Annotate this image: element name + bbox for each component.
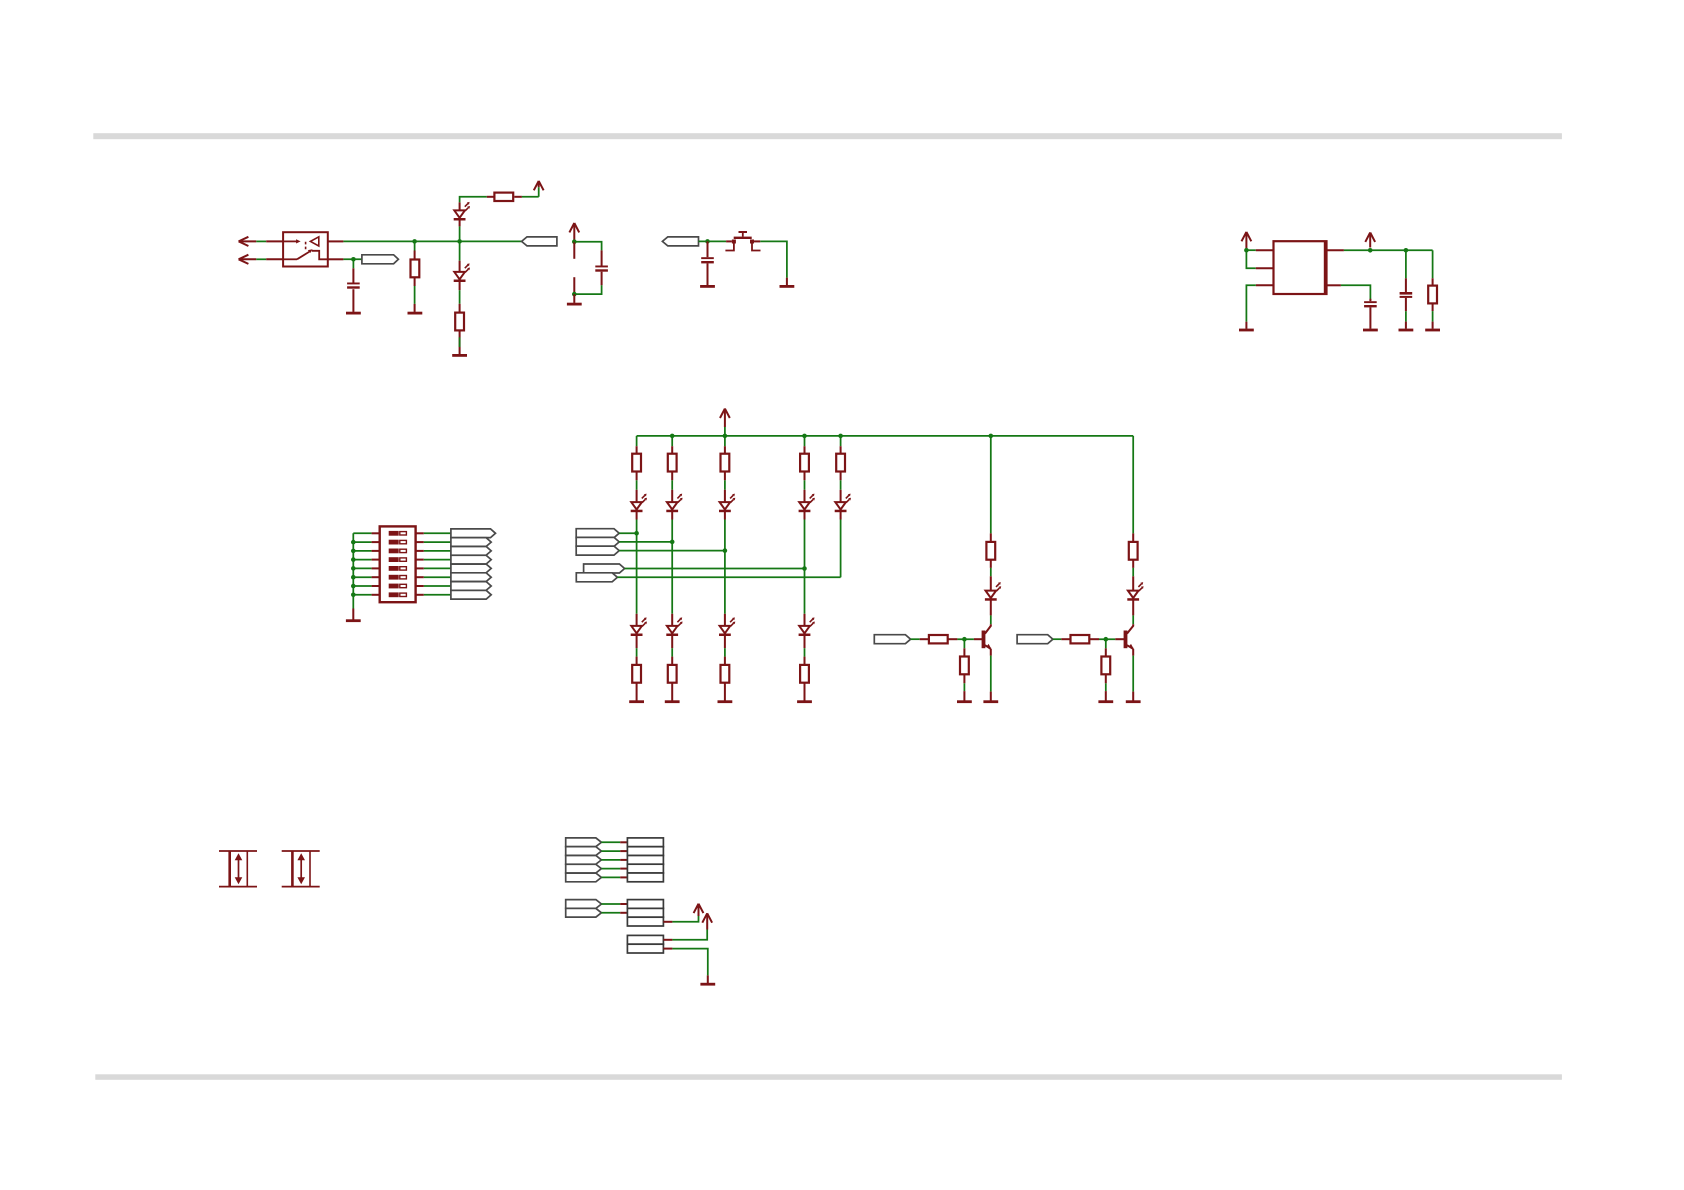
supply VCC <box>720 409 730 418</box>
connector X2 pad 1 <box>627 900 663 909</box>
wire <box>256 240 266 242</box>
pin R11-1 <box>671 657 673 665</box>
pin R12-2 <box>724 683 726 701</box>
ground <box>1239 329 1254 332</box>
dip switch SW1 element 6 <box>389 575 399 580</box>
pin <box>963 691 965 700</box>
connector X3 pad 2 <box>627 944 663 953</box>
pin X3-2 <box>663 948 672 950</box>
pin SW1-6R <box>416 576 424 578</box>
pin D8-K <box>636 636 638 649</box>
pin R3-2 <box>1432 303 1434 311</box>
pin X1-4 <box>620 868 627 870</box>
net flag row1 end <box>522 237 557 246</box>
pin <box>707 975 709 983</box>
junction <box>723 548 728 553</box>
pin <box>990 692 992 701</box>
supply VCC <box>694 904 704 913</box>
LED D11 <box>799 626 810 633</box>
wire <box>353 550 371 552</box>
connector X3 pad 1 <box>627 935 663 944</box>
net flag SW3 <box>451 547 491 556</box>
pin D7-K <box>840 512 842 520</box>
dip switch SW1 element 5 <box>389 566 399 571</box>
pin R20-2 <box>1105 674 1107 683</box>
wire <box>724 648 726 656</box>
wire <box>672 916 698 922</box>
wire <box>1405 250 1407 278</box>
pin R2-1 <box>487 196 494 198</box>
net flag SW5 <box>451 564 491 573</box>
LED D10 <box>720 626 731 633</box>
net flag ROW5 <box>576 573 617 582</box>
pin D16-A <box>1132 576 1134 590</box>
resistor R1 <box>411 260 420 278</box>
pin D15-K <box>990 600 992 615</box>
pin R7-2 <box>724 472 726 481</box>
pin C4-1 <box>1369 299 1371 301</box>
wire <box>1246 285 1255 321</box>
wire <box>636 520 638 534</box>
junction <box>705 239 710 244</box>
resistor R9 <box>836 454 845 472</box>
pin SW1-7L <box>372 585 380 587</box>
wire <box>1132 568 1134 576</box>
capacitor C4 <box>1364 301 1377 303</box>
wire <box>636 480 638 490</box>
junction <box>572 239 577 244</box>
wire <box>617 576 840 578</box>
wire <box>804 436 806 446</box>
wire <box>414 241 416 250</box>
resistor R12 <box>721 665 730 683</box>
ground <box>629 700 644 703</box>
net flag P4 <box>566 864 602 873</box>
pin D7-A <box>840 490 842 502</box>
wire <box>424 550 451 552</box>
junction <box>351 549 356 554</box>
pin SW1-5L <box>372 567 380 569</box>
pin C5-1 <box>1405 278 1407 292</box>
junction <box>802 434 807 439</box>
pin D3-K <box>636 512 638 520</box>
wire <box>424 541 451 543</box>
resistor R15 <box>986 542 995 560</box>
pin R20-1 <box>1105 648 1107 656</box>
junction <box>989 434 994 439</box>
pin SW1-3L <box>372 550 380 552</box>
net flag Q1 <box>566 900 602 909</box>
wire <box>424 576 451 578</box>
pin SW1-1L <box>372 532 380 534</box>
pin C3-1 <box>707 241 709 257</box>
pin SW1-5R <box>416 567 424 569</box>
wire <box>636 436 638 446</box>
wire <box>840 436 842 446</box>
ground <box>1399 329 1414 332</box>
pin <box>573 294 575 303</box>
pin R9-2 <box>840 472 842 481</box>
pin X1-5 <box>620 876 627 878</box>
wire <box>724 551 726 614</box>
mount symbol H2 <box>282 850 320 852</box>
pin R12-1 <box>724 657 726 665</box>
wire <box>619 541 672 543</box>
supply VCC <box>534 181 544 190</box>
net flag P3 <box>566 856 602 865</box>
wire net row1 <box>343 240 521 242</box>
pin R18-2 <box>1090 638 1099 640</box>
pin D8-A <box>636 614 638 626</box>
pin S1-2 <box>754 240 760 242</box>
pin D9-K <box>671 636 673 649</box>
wire <box>1099 638 1115 640</box>
ground <box>1363 329 1378 332</box>
wire <box>538 187 540 197</box>
transistor Q2 <box>1124 631 1128 649</box>
wire <box>671 436 673 446</box>
pin R8-1 <box>804 446 806 454</box>
pin SW1-8L <box>372 594 380 596</box>
resistor R5 <box>632 454 641 472</box>
supply VCC <box>1242 232 1252 241</box>
wire <box>957 638 974 640</box>
junction <box>1104 637 1109 642</box>
resistor R7 <box>721 454 730 472</box>
dip switch SW1 element 7 <box>389 584 399 589</box>
net flag Q2 <box>566 908 602 917</box>
pin R5-2 <box>636 472 638 481</box>
pin R1-1 <box>414 251 416 260</box>
wire <box>724 427 726 436</box>
wire <box>601 868 620 870</box>
wire <box>459 226 461 241</box>
pin R10-2 <box>636 683 638 701</box>
pin X2-3 <box>663 921 672 923</box>
pin <box>414 304 416 312</box>
pin D2-K <box>459 282 461 291</box>
wire <box>574 285 601 294</box>
switch S1 <box>732 240 736 244</box>
pin SW1-8R <box>416 594 424 596</box>
pin R19-1 <box>963 648 965 656</box>
pin IC1-EN <box>1256 267 1274 269</box>
pin R17-2 <box>948 638 957 640</box>
pin J1-2 <box>266 258 283 260</box>
pin <box>1432 322 1434 329</box>
ground <box>700 285 715 288</box>
capacitor C5 <box>1400 292 1413 295</box>
pin X3-1 <box>663 939 672 941</box>
wire <box>424 594 451 596</box>
resistor R8 <box>800 454 809 472</box>
wire <box>1405 311 1407 321</box>
pin D15-A <box>990 576 992 590</box>
pin R19-2 <box>963 674 965 683</box>
pin R6-1 <box>671 446 673 454</box>
LED D8 <box>631 626 642 633</box>
dip switch SW1 element 4 <box>389 557 399 562</box>
pin J1-4 <box>328 258 344 260</box>
junction <box>351 566 356 571</box>
pin D11-A <box>804 614 806 626</box>
wire <box>1341 285 1371 300</box>
resistor R4 <box>455 313 464 331</box>
pin SW1-7R <box>416 585 424 587</box>
ground <box>567 303 582 306</box>
wire <box>724 436 726 446</box>
transistor Q1 <box>982 631 986 649</box>
junction <box>351 557 356 562</box>
ground <box>346 619 361 622</box>
connector X1 pad 2 <box>627 847 663 856</box>
pin R18-1 <box>1061 638 1070 640</box>
pin R3-1 <box>1432 278 1434 285</box>
connector X1 pad 5 <box>627 873 663 882</box>
wire <box>1432 250 1434 278</box>
wire VCC bus <box>637 435 1134 437</box>
resistor R17 <box>929 635 948 643</box>
net flag CTRL2 <box>1017 635 1053 644</box>
pin R13-1 <box>804 657 806 665</box>
ground <box>346 312 361 315</box>
pin J1-1 <box>266 240 283 242</box>
pin R5-1 <box>636 446 638 454</box>
mount symbol H1 <box>219 850 257 852</box>
pin SW1-2R <box>416 541 424 543</box>
junction <box>962 637 967 642</box>
junction <box>351 257 356 262</box>
wire <box>625 568 805 570</box>
wire <box>1132 615 1134 624</box>
resistor R11 <box>668 665 677 683</box>
pin R17-1 <box>920 638 929 640</box>
net flag SW7 <box>451 582 491 591</box>
pin J1-3 <box>328 240 344 242</box>
pin <box>1245 322 1247 329</box>
wire <box>804 569 806 614</box>
LED D9 <box>667 626 678 633</box>
pin C5-2 <box>1405 298 1407 311</box>
junction <box>351 593 356 598</box>
pin R4-2 <box>459 330 461 347</box>
wire <box>671 542 673 614</box>
ground <box>452 354 467 357</box>
LED D1 <box>454 210 465 217</box>
pin D1-A <box>459 202 461 210</box>
wire <box>990 436 992 534</box>
pin R16-1 <box>1132 533 1134 542</box>
wire <box>1132 436 1134 534</box>
wire <box>671 520 673 542</box>
net flag ROW4 <box>584 564 625 573</box>
junction <box>723 434 728 439</box>
ground <box>957 700 972 703</box>
wire <box>353 541 371 543</box>
pin R11-2 <box>671 683 673 701</box>
wire <box>353 594 371 596</box>
battery BT1 pin <box>573 242 575 259</box>
net flag P1 <box>566 838 602 847</box>
pin D5-K <box>724 512 726 520</box>
pin D3-A <box>636 490 638 502</box>
capacitor C2 <box>595 266 608 268</box>
net flag SW4 <box>451 555 491 564</box>
pin R13-2 <box>804 683 806 701</box>
net flag BTN <box>662 237 698 246</box>
frame bottom bar <box>95 1074 1562 1080</box>
connector J1 (jack with switch) <box>283 232 328 266</box>
resistor R10 <box>632 665 641 683</box>
pin D6-A <box>804 490 806 502</box>
pin IC1-BYP <box>1327 284 1341 286</box>
pin R2-2 <box>514 196 522 198</box>
ground <box>1098 700 1113 703</box>
pin D5-A <box>724 490 726 502</box>
LED D5 <box>720 502 731 509</box>
wire <box>840 520 842 578</box>
capacitor C3 <box>701 257 714 259</box>
LED D3 <box>631 502 642 509</box>
wire <box>636 648 638 656</box>
regulator IC1 <box>1274 241 1327 294</box>
wire <box>963 639 965 648</box>
pin C3-2 <box>707 263 709 285</box>
supply VCC <box>569 223 579 232</box>
pin Q2-B <box>1115 638 1124 640</box>
dip switch SW1 body <box>380 526 416 602</box>
wire <box>804 648 806 656</box>
pin X1-1 <box>620 841 627 843</box>
connector X1 pad 4 <box>627 864 663 873</box>
resistor R18 <box>1071 635 1090 643</box>
pin D4-A <box>671 490 673 502</box>
resistor R20 <box>1101 657 1110 675</box>
wire <box>574 242 601 251</box>
pin D6-K <box>804 512 806 520</box>
capacitor C1 <box>347 283 360 285</box>
ground <box>1126 700 1141 703</box>
net flag P2 <box>566 847 602 856</box>
wire <box>990 615 992 624</box>
wire <box>601 903 620 905</box>
wire <box>601 841 620 843</box>
wire <box>522 196 539 198</box>
supply VCC <box>702 913 712 922</box>
dip switch SW1 element 1 <box>389 531 399 536</box>
pin IC1-IN <box>1256 249 1274 251</box>
wire <box>353 567 371 569</box>
pin R16-2 <box>1132 560 1134 568</box>
wire SW ground bus <box>352 533 354 608</box>
pin SW1-4L <box>372 559 380 561</box>
junction <box>670 540 675 545</box>
wire <box>1432 311 1434 322</box>
wire <box>256 258 266 260</box>
pin R1-2 <box>414 277 416 286</box>
wire <box>352 259 354 268</box>
net flag SW8 <box>451 590 491 599</box>
dip switch SW1 element 2 <box>389 540 399 545</box>
pin R10-1 <box>636 657 638 665</box>
resistor R6 <box>668 454 677 472</box>
wire <box>343 258 362 260</box>
wire <box>1344 249 1433 251</box>
pin IC1-GND <box>1256 284 1274 286</box>
pin D10-A <box>724 614 726 626</box>
wire <box>1105 639 1107 648</box>
pin R9-1 <box>840 446 842 454</box>
pin X1-3 <box>620 859 627 861</box>
pin D1-K <box>459 220 461 226</box>
resistor R3 <box>1428 286 1437 304</box>
wire <box>911 638 920 640</box>
wire <box>1053 638 1061 640</box>
LED D2 <box>454 272 465 279</box>
dip switch SW1 element 3 <box>389 549 399 554</box>
connector X1 pad 3 <box>627 856 663 865</box>
wire <box>619 532 636 534</box>
wire <box>699 240 727 242</box>
wire <box>353 559 371 561</box>
wire <box>353 576 371 578</box>
wire <box>601 876 620 878</box>
pin S1-1 <box>726 240 732 242</box>
junction <box>412 239 417 244</box>
wire <box>840 480 842 490</box>
junction <box>802 566 807 571</box>
pin C1-1 <box>352 268 354 282</box>
pin D11-K <box>804 636 806 649</box>
pin X2-2 <box>620 912 627 914</box>
wire <box>460 197 487 203</box>
pin Q1-B <box>974 638 982 640</box>
net flag SW2 <box>451 538 491 547</box>
pin C2-2 <box>601 272 603 286</box>
wire <box>724 480 726 490</box>
junction <box>634 531 639 536</box>
ground <box>718 700 733 703</box>
dip switch SW1 element 8 <box>389 592 399 597</box>
connector X2 pad 3 <box>627 917 663 926</box>
pin SW1-4R <box>416 559 424 561</box>
wire <box>353 532 371 534</box>
wire <box>671 480 673 490</box>
LED D4 <box>667 502 678 509</box>
ground <box>1425 329 1440 332</box>
off-page arrow net AUDIO1 <box>239 237 249 246</box>
wire <box>601 850 620 852</box>
LED D15 <box>986 591 997 598</box>
pin SW1-2L <box>372 541 380 543</box>
junction <box>351 575 356 580</box>
net flag ROW2 <box>576 537 619 546</box>
wire <box>963 683 965 691</box>
LED D16 <box>1128 591 1139 598</box>
wire <box>459 241 461 260</box>
wire <box>353 585 371 587</box>
pin SW1-1R <box>416 532 424 534</box>
wire <box>760 241 787 277</box>
wire <box>804 480 806 490</box>
pin IC1-OUT <box>1327 249 1344 251</box>
wire <box>601 912 620 914</box>
pin C4-2 <box>1369 307 1371 328</box>
pin SW1-3R <box>416 550 424 552</box>
wire <box>414 286 416 304</box>
pin D16-K <box>1132 600 1134 615</box>
ground <box>665 700 680 703</box>
